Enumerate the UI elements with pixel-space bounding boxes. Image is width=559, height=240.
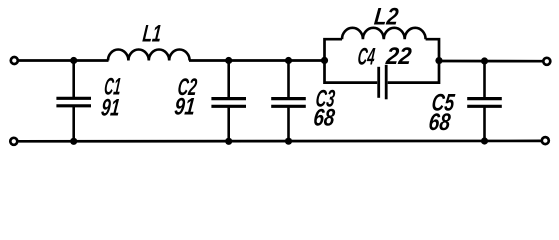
svg-text:68: 68 [312, 105, 337, 132]
svg-text:L2: L2 [373, 4, 400, 31]
svg-text:C4: C4 [356, 44, 376, 71]
svg-text:L1: L1 [141, 21, 162, 48]
svg-text:91: 91 [173, 94, 196, 121]
svg-text:91: 91 [100, 94, 121, 121]
svg-text:22: 22 [384, 43, 413, 70]
svg-text:68: 68 [427, 109, 452, 136]
